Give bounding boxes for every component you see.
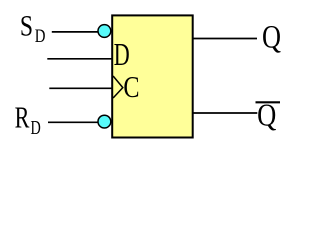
clock edge-trigger triangle: [113, 76, 123, 98]
svg-text:D: D: [35, 25, 46, 46]
svg-text:Q: Q: [257, 98, 276, 133]
wire Q output: [193, 38, 257, 40]
inversion bubble on R_D: [98, 115, 111, 128]
wire C clock input: [49, 87, 112, 89]
label Q-bar : overline: [256, 101, 281, 103]
svg-text:Q: Q: [262, 20, 281, 55]
wire R_D input: [48, 121, 98, 123]
wire D input: [47, 58, 112, 60]
svg-text:D: D: [31, 117, 41, 139]
svg-text:S: S: [20, 9, 33, 42]
svg-text:C: C: [123, 70, 139, 105]
wire S_D input: [52, 31, 99, 33]
wire Q-bar output: [193, 112, 258, 114]
inversion bubble on S_D: [98, 25, 111, 38]
svg-text:R: R: [15, 100, 30, 134]
flip-flop body U1: [112, 15, 193, 137]
svg-text:D: D: [114, 37, 130, 72]
